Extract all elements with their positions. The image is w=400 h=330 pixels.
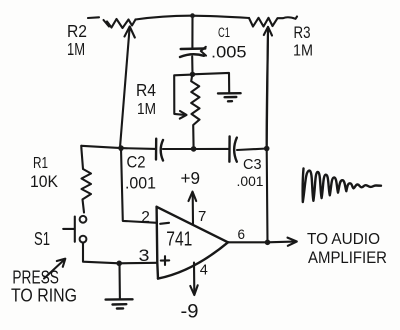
label 741 <box>166 228 192 250</box>
label R3 <box>294 24 311 42</box>
label R2 value 1M <box>67 39 85 59</box>
svg-text:10K: 10K <box>30 173 58 191</box>
node junction A dot (top bus / C1) <box>190 13 195 18</box>
svg-text:1M: 1M <box>67 39 85 59</box>
pin 4 arrow (-supply) <box>190 263 197 296</box>
wire node C to C3 <box>194 148 229 150</box>
potentiometer R2 <box>88 17 136 147</box>
label PRESS <box>12 268 59 288</box>
capacitor C1 <box>180 16 206 75</box>
svg-text:R4: R4 <box>136 80 156 100</box>
label pin 2 <box>141 209 150 226</box>
label pin 4 <box>200 263 208 279</box>
svg-text:.001: .001 <box>125 175 156 193</box>
op-amp U1 (741) triangle <box>157 207 228 279</box>
label +9 <box>181 168 201 188</box>
potentiometer R3 <box>249 17 297 149</box>
label C2 value .001 <box>125 175 156 193</box>
wire S1 to node D <box>83 243 119 263</box>
node J1 dot (R2 wiper / pin2 tap) <box>118 145 124 151</box>
svg-text:+9: +9 <box>181 168 201 188</box>
node junction B dot (C1 bottom) <box>190 72 195 77</box>
svg-text:741: 741 <box>166 228 192 250</box>
wire J1 to C2 <box>121 147 156 150</box>
resistor R1 <box>81 146 91 213</box>
label pin 6 <box>238 227 246 242</box>
node J2 dot (C3 / right branch) <box>264 146 270 152</box>
svg-text:1M: 1M <box>137 101 156 118</box>
wire node B to ground <box>193 73 230 93</box>
middle wire: R1 corner to node J1 <box>81 146 121 148</box>
pin 2 wire (J1 down to inverting input) <box>121 148 157 223</box>
svg-text:AMPLIFIER: AMPLIFIER <box>308 248 387 267</box>
ground (near C1) <box>218 93 241 101</box>
ground wire (node D) <box>118 263 121 299</box>
wire node D to pin 3 <box>119 262 156 265</box>
svg-text:R1: R1 <box>33 155 48 172</box>
svg-text:PRESS: PRESS <box>12 268 59 288</box>
label R1 <box>33 155 48 172</box>
svg-text:6: 6 <box>238 227 246 242</box>
svg-text:4: 4 <box>200 263 208 279</box>
node D dot (pin3 / ground) <box>116 261 122 267</box>
wire C2 to node C <box>163 148 194 150</box>
label TO RING <box>11 286 77 306</box>
label pin 7 <box>198 208 206 225</box>
label pin 3 <box>139 246 150 265</box>
waveform sketch (ringing) <box>303 169 381 203</box>
capacitor C3 <box>229 136 236 161</box>
svg-text:C2: C2 <box>127 154 146 172</box>
svg-text:3: 3 <box>139 246 150 265</box>
label AMPLIFIER <box>308 248 387 267</box>
label C3 <box>243 156 262 173</box>
capacitor C2 <box>156 139 163 161</box>
label R1 value 10K <box>30 173 58 191</box>
svg-text:C3: C3 <box>243 156 262 173</box>
svg-text:S1: S1 <box>34 229 50 249</box>
svg-text:R3: R3 <box>294 24 311 42</box>
label S1 <box>34 229 50 249</box>
label C1 <box>218 25 230 40</box>
svg-text:C1: C1 <box>218 25 230 40</box>
label C1 value .005 <box>211 44 247 62</box>
node C dot (R4 bottom) <box>191 146 197 152</box>
rheostat R4 <box>174 75 199 149</box>
wire C3 to node J2 <box>237 149 267 151</box>
pin 7 arrow (+supply) <box>189 192 197 224</box>
pin 6 output wire <box>228 241 267 243</box>
svg-text:1M: 1M <box>293 43 313 60</box>
svg-text:2: 2 <box>141 209 150 226</box>
label C3 value .001 <box>237 173 264 189</box>
svg-text:.005: .005 <box>211 44 247 62</box>
label R2 <box>67 21 87 41</box>
svg-text:R2: R2 <box>67 21 87 41</box>
op-amp inverting input minus sign <box>160 223 169 224</box>
label R4 value 1M <box>137 101 156 118</box>
svg-text:TO RING: TO RING <box>11 286 77 306</box>
svg-text:.001: .001 <box>237 173 264 189</box>
node output dot <box>265 240 271 246</box>
svg-text:-9: -9 <box>181 301 199 323</box>
switch S1 <box>63 216 86 243</box>
ground (bottom) <box>106 299 133 308</box>
svg-text:7: 7 <box>198 208 206 225</box>
op-amp non-inverting input plus sign <box>161 256 169 265</box>
label R4 <box>136 80 156 100</box>
label C2 <box>127 154 146 172</box>
annotation arrow to switch <box>44 259 65 279</box>
svg-text:TO AUDIO: TO AUDIO <box>307 231 380 248</box>
label TO AUDIO <box>307 231 380 248</box>
label R3 value 1M <box>293 43 313 60</box>
label -9 <box>181 301 199 323</box>
right branch wire (R3 wiper through J2 to output) <box>267 34 268 242</box>
output arrow <box>268 238 297 246</box>
wire top bus (R2 to C1 node to R3) <box>136 16 250 20</box>
